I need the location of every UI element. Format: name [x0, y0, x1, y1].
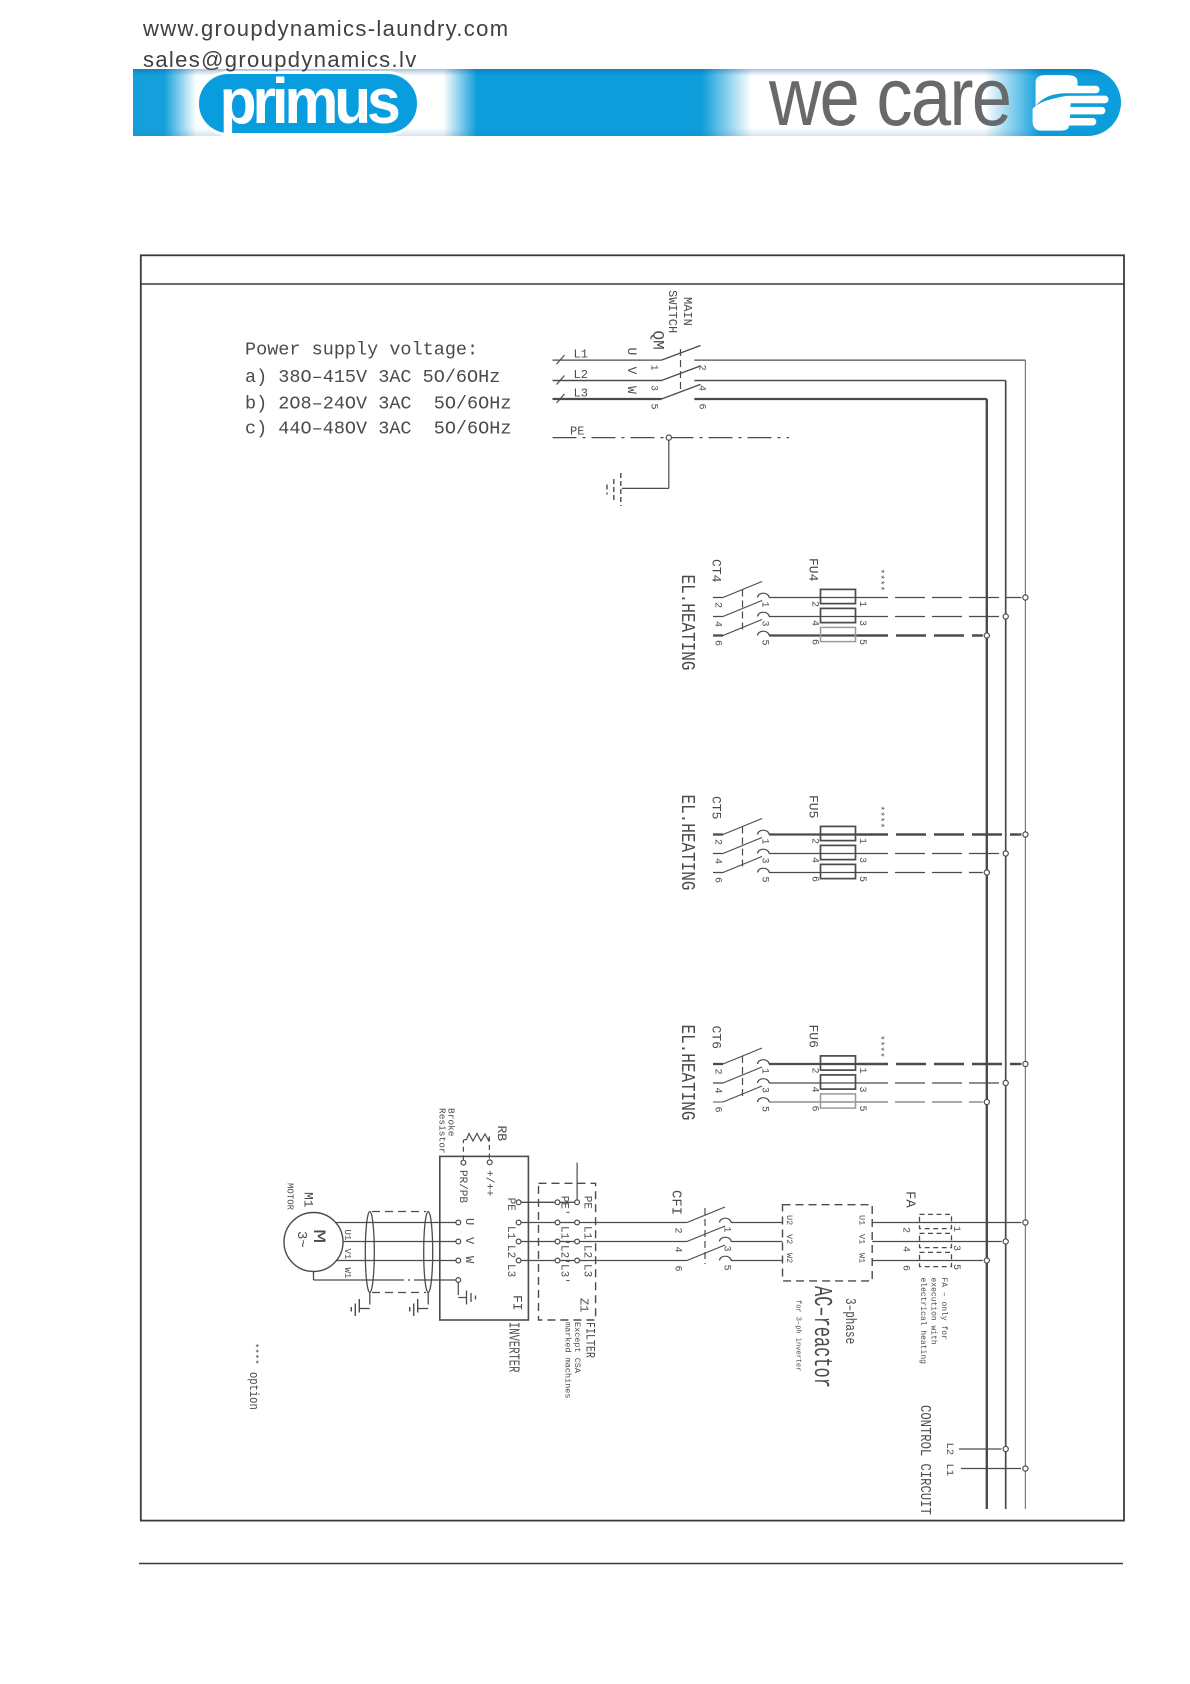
svg-text:L2: L2	[943, 1443, 955, 1456]
svg-text:3: 3	[759, 858, 770, 864]
svg-text:****: ****	[875, 1035, 886, 1058]
svg-text:2: 2	[712, 602, 723, 608]
svg-text:U: U	[624, 348, 639, 356]
svg-text:1: 1	[759, 839, 770, 845]
svg-text:L2: L2	[574, 368, 588, 382]
svg-text:5: 5	[759, 1106, 770, 1112]
svg-text:QM: QM	[649, 331, 667, 350]
svg-text:4: 4	[712, 621, 723, 627]
svg-text:L3: L3	[581, 1264, 593, 1277]
svg-text:4: 4	[672, 1247, 683, 1253]
svg-text:1: 1	[648, 365, 659, 371]
svg-text:1: 1	[759, 602, 770, 608]
svg-text:****: ****	[875, 569, 886, 592]
svg-text:W: W	[624, 386, 639, 394]
svg-text:3: 3	[759, 621, 770, 627]
svg-text:6: 6	[672, 1266, 683, 1272]
svg-text:CT5: CT5	[709, 796, 724, 819]
svg-text:Z1: Z1	[577, 1298, 591, 1312]
svg-text:L2: L2	[581, 1245, 593, 1258]
svg-text:6: 6	[712, 1107, 723, 1113]
svg-text:L3: L3	[504, 1264, 516, 1277]
svg-text:W1: W1	[857, 1253, 867, 1263]
svg-text:1: 1	[759, 1068, 770, 1074]
svg-text:PE: PE	[581, 1196, 593, 1210]
svg-text:5: 5	[721, 1265, 732, 1271]
svg-text:L2: L2	[504, 1245, 516, 1258]
svg-text:3: 3	[648, 385, 659, 391]
svg-text:CONTROL CIRCUIT: CONTROL CIRCUIT	[916, 1405, 932, 1515]
svg-text:3: 3	[856, 620, 867, 626]
svg-text:FU4: FU4	[806, 558, 821, 582]
svg-text:2: 2	[712, 839, 723, 845]
svg-text:V1: V1	[342, 1249, 352, 1260]
svg-text:PR/PB: PR/PB	[456, 1170, 468, 1203]
svg-text:EL.HEATING: EL.HEATING	[675, 795, 697, 891]
svg-text:3: 3	[856, 1087, 867, 1093]
svg-text:2: 2	[900, 1227, 911, 1233]
svg-text:L1: L1	[943, 1464, 955, 1477]
svg-text:****: ****	[875, 806, 886, 829]
svg-text:4: 4	[712, 1088, 723, 1094]
svg-text:V: V	[624, 367, 639, 375]
svg-text:MOTOR: MOTOR	[285, 1183, 295, 1211]
svg-text:4: 4	[809, 857, 820, 863]
svg-text:****: ****	[250, 1343, 260, 1365]
svg-text:V2: V2	[784, 1234, 794, 1244]
svg-text:PE: PE	[504, 1198, 516, 1212]
svg-text:CT4: CT4	[709, 559, 724, 583]
svg-text:M1: M1	[301, 1192, 316, 1208]
svg-text:FA – only for: FA – only for	[939, 1278, 948, 1341]
svg-text:c) 44O–48OV 3AC 5O/6OHz: c) 44O–48OV 3AC 5O/6OHz	[245, 418, 511, 439]
svg-text:EL.HEATING: EL.HEATING	[675, 1025, 697, 1121]
svg-text:Except CSA: Except CSA	[572, 1322, 582, 1374]
svg-text:6: 6	[900, 1265, 911, 1271]
svg-text:RB: RB	[494, 1126, 509, 1142]
svg-text:5: 5	[950, 1264, 961, 1270]
svg-text:FI: FI	[510, 1295, 525, 1311]
svg-text:+/++: +/++	[482, 1170, 494, 1196]
svg-text:3: 3	[759, 1087, 770, 1093]
svg-text:FA: FA	[902, 1191, 918, 1208]
svg-text:5: 5	[856, 876, 867, 882]
svg-text:V: V	[462, 1237, 476, 1245]
svg-text:b) 2O8–24OV 3AC 5O/6OHz: b) 2O8–24OV 3AC 5O/6OHz	[245, 393, 511, 414]
svg-text:V1: V1	[857, 1234, 867, 1244]
svg-text:6: 6	[809, 1106, 820, 1112]
svg-text:option: option	[246, 1372, 260, 1410]
svg-text:U1: U1	[857, 1215, 867, 1225]
svg-text:M: M	[308, 1229, 328, 1243]
svg-text:EL.HEATING: EL.HEATING	[675, 575, 697, 671]
svg-text:4: 4	[712, 858, 723, 864]
svg-text:Resistor: Resistor	[437, 1108, 448, 1154]
svg-text:5: 5	[759, 640, 770, 646]
svg-text:4: 4	[900, 1246, 911, 1252]
svg-text:6: 6	[712, 640, 723, 646]
svg-text:FU5: FU5	[806, 795, 821, 818]
svg-text:L1: L1	[581, 1226, 593, 1240]
svg-text:5: 5	[856, 639, 867, 645]
svg-text:1: 1	[856, 838, 867, 844]
svg-text:4: 4	[809, 620, 820, 626]
svg-text:PE': PE'	[558, 1196, 570, 1216]
svg-text:FILTER: FILTER	[582, 1322, 597, 1358]
svg-text:5: 5	[759, 877, 770, 883]
svg-text:execution with: execution with	[929, 1278, 938, 1345]
svg-text:MAIN: MAIN	[680, 297, 694, 326]
svg-text:for 3-ph inverter: for 3-ph inverter	[794, 1300, 802, 1371]
svg-text:L3: L3	[574, 386, 588, 400]
svg-text:SWITCH: SWITCH	[665, 290, 679, 333]
svg-text:W1: W1	[342, 1268, 352, 1279]
svg-text:5: 5	[856, 1106, 867, 1112]
svg-text:1: 1	[856, 1068, 867, 1074]
svg-text:4: 4	[809, 1087, 820, 1093]
svg-text:CFI: CFI	[668, 1190, 684, 1215]
svg-text:2: 2	[809, 1068, 820, 1074]
svg-text:L3': L3'	[558, 1264, 570, 1284]
svg-text:FU6: FU6	[806, 1025, 821, 1048]
svg-text:INVERTER: INVERTER	[505, 1322, 522, 1373]
svg-text:marked machines: marked machines	[563, 1322, 573, 1399]
svg-text:6: 6	[809, 639, 820, 645]
svg-text:1: 1	[856, 601, 867, 607]
svg-text:1: 1	[950, 1226, 961, 1232]
svg-text:3: 3	[950, 1245, 961, 1251]
svg-text:U: U	[462, 1218, 476, 1225]
svg-text:2: 2	[809, 838, 820, 844]
svg-text:CT6: CT6	[709, 1026, 724, 1049]
svg-text:electrical heating: electrical heating	[918, 1278, 927, 1365]
svg-text:a) 38O–415V 3AC 5O/6OHz: a) 38O–415V 3AC 5O/6OHz	[245, 367, 500, 388]
svg-text:W2: W2	[784, 1253, 794, 1263]
svg-text:L1: L1	[574, 348, 588, 362]
svg-text:6: 6	[712, 877, 723, 883]
svg-text:3: 3	[856, 857, 867, 863]
svg-text:2: 2	[809, 601, 820, 607]
svg-text:PE: PE	[570, 425, 584, 439]
svg-text:6: 6	[696, 404, 707, 410]
svg-text:6: 6	[809, 876, 820, 882]
svg-text:AC–reactor: AC–reactor	[807, 1286, 837, 1388]
svg-text:U2: U2	[784, 1215, 794, 1225]
svg-text:2: 2	[672, 1228, 683, 1234]
svg-text:2: 2	[712, 1069, 723, 1075]
svg-text:Power supply voltage:: Power supply voltage:	[245, 339, 478, 360]
svg-text:3–phase: 3–phase	[842, 1298, 859, 1344]
svg-text:W: W	[462, 1256, 476, 1264]
svg-text:3~: 3~	[293, 1231, 309, 1248]
svg-text:U1: U1	[342, 1230, 352, 1241]
svg-text:L1: L1	[504, 1226, 516, 1240]
svg-text:5: 5	[648, 404, 659, 410]
